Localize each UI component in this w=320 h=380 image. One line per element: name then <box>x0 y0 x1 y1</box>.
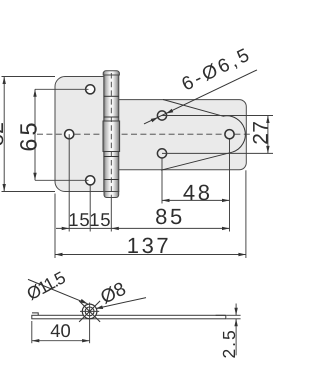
dim 48 line <box>162 199 230 201</box>
left leaf plate <box>55 77 112 192</box>
left dim arrow down <box>3 184 6 192</box>
hinge barrel body <box>104 75 119 192</box>
dim 85 arrow left <box>111 227 119 230</box>
centermark diagonal B <box>79 301 100 322</box>
left dim arrow up <box>3 77 6 85</box>
svg-text:137: 137 <box>127 233 172 258</box>
knuckle vertical centerline <box>89 303 91 344</box>
dim 2.5 lower line <box>235 319 237 356</box>
svg-text:40: 40 <box>50 320 70 341</box>
leader arrow lower <box>151 118 158 123</box>
leader arrow upper <box>166 109 173 114</box>
dim 137 arrow left <box>55 253 63 256</box>
pin dashed centerline <box>110 73 112 197</box>
ext line strap lower hole down <box>161 159 163 204</box>
ext line bottom hole <box>35 179 89 181</box>
ext line tip hole down <box>229 139 231 231</box>
leader d11.5 arrow <box>80 299 87 304</box>
dim 2.5 lower arrow <box>234 319 237 327</box>
ext line mid hole col down <box>68 134 70 231</box>
dim 40 line <box>32 340 90 342</box>
leader d8 <box>96 298 146 309</box>
ext line strip bottom right <box>226 318 240 320</box>
centermark diagonal A <box>79 301 100 322</box>
svg-text:15: 15 <box>68 209 90 230</box>
knuckle joint lines <box>104 95 119 97</box>
dim 48 arrow left <box>162 199 170 202</box>
ext line strap lower hole right <box>162 152 273 154</box>
dim 15-15 line with left tail <box>56 227 111 229</box>
hole left plate bottom <box>86 176 95 185</box>
side view left end tab <box>32 313 38 315</box>
barrel bottom cap <box>104 192 119 198</box>
ext line plate bottom to left dim <box>2 191 56 193</box>
dim 48 arrow right <box>222 199 230 202</box>
pin extension line down <box>110 198 112 232</box>
ext line strap tip down <box>245 170 247 258</box>
knuckle outer circle <box>82 304 97 319</box>
ext line plate top to left dim <box>2 76 56 78</box>
hole strap tip <box>225 130 234 139</box>
dim 137 arrow right <box>238 253 246 256</box>
leader d11.5 <box>28 279 88 303</box>
dim 65 line <box>34 89 36 180</box>
ext line strap upper hole right <box>162 115 273 117</box>
side view strip <box>32 315 226 319</box>
ext line side hole col down <box>89 185 91 231</box>
dim 2.5 upper line <box>235 304 237 316</box>
left height dim line <box>3 77 5 192</box>
dim 27 line <box>267 116 269 154</box>
strap taper top edge <box>163 100 223 117</box>
strap taper bottom edge <box>161 152 232 170</box>
hole left plate middle <box>65 130 74 139</box>
dim 65 arrow up <box>33 89 36 97</box>
dim 65 arrow down <box>33 173 36 181</box>
side view right hole mark <box>216 314 226 316</box>
svg-text:15: 15 <box>89 209 111 230</box>
leader 6-d6.5 <box>144 70 257 124</box>
ext line strip top right <box>226 314 240 316</box>
dim 85 arrow right <box>222 227 230 230</box>
hole strap lower <box>157 149 166 158</box>
leader d8 arrow <box>96 305 103 309</box>
dim 27 arrow up <box>266 116 269 124</box>
dim 137 line <box>55 254 246 256</box>
dim 40 arrow right <box>82 339 90 342</box>
dim 85 line <box>111 227 229 229</box>
hole strap upper <box>157 111 166 120</box>
barrel top cap <box>103 71 119 75</box>
dim 27 arrow down <box>266 146 269 154</box>
ext line top hole <box>35 88 89 90</box>
barrel middle knuckle (wider) <box>103 121 120 152</box>
svg-text:27: 27 <box>249 121 272 145</box>
ext line strip left end down <box>31 321 33 343</box>
hole left plate top <box>86 85 95 94</box>
dim 2.5 upper arrow <box>234 308 237 316</box>
dim 15 outside arrow <box>62 227 69 230</box>
knuckle inner circle <box>85 307 94 316</box>
svg-text:82: 82 <box>0 122 8 146</box>
strap tip arc <box>223 116 245 152</box>
ext line plate left edge down <box>54 194 56 259</box>
strap leaf band <box>118 100 246 170</box>
knuckle horizontal centerline <box>80 310 99 312</box>
svg-text:2.5: 2.5 <box>219 328 239 358</box>
svg-text:85: 85 <box>155 204 185 229</box>
svg-text:65: 65 <box>16 119 42 151</box>
dim 40 arrow left <box>32 339 40 342</box>
svg-text:48: 48 <box>183 180 213 205</box>
horizontal dashed centerline <box>37 133 253 135</box>
